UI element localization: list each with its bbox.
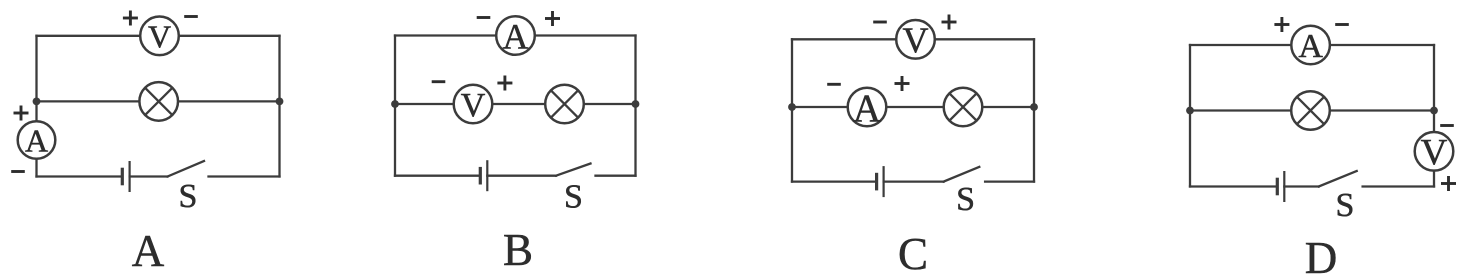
svg-text:A: A [1298, 28, 1323, 65]
circuit B: bottom wire middle segment [487, 175, 556, 177]
svg-text:V: V [461, 87, 486, 124]
lamp (circuit D) [1291, 91, 1330, 130]
circuit D: left vertical wire [1189, 45, 1191, 187]
circuit A: right vertical wire [278, 36, 280, 177]
circuit A: bottom wire middle segment [130, 175, 168, 177]
ammeter - terminal label (circuit A) [11, 170, 25, 173]
ammeter A (circuit B) [496, 16, 535, 56]
node: right junction (circuit B) [632, 100, 640, 108]
circuit B: left vertical wire [394, 36, 396, 176]
lamp (circuit A) [139, 82, 178, 121]
node: right junction (circuit C) [1030, 103, 1038, 111]
node: left junction (circuit D) [1186, 107, 1194, 115]
svg-text:A: A [25, 122, 48, 158]
switch S blade (circuit D) [1319, 171, 1357, 187]
circuit A: left vertical wire (top to node) [35, 36, 37, 102]
voltmeter V (circuit D) [1415, 132, 1454, 173]
node: left junction (circuit A) [33, 98, 41, 106]
circuit C: middle wire right segment [982, 106, 1034, 108]
node: left junction (circuit C) [788, 103, 796, 111]
ammeter + terminal label (circuit C) [895, 76, 910, 91]
voltmeter V (circuit B) [454, 85, 493, 124]
circuit C: bottom wire left segment [792, 180, 877, 182]
circuit D: middle wire left segment [1190, 109, 1291, 111]
voltmeter + terminal label (circuit D) [1441, 176, 1456, 191]
circuit D: bottom wire right segment [1363, 185, 1434, 187]
voltmeter + terminal label (circuit C) [942, 15, 957, 30]
ammeter + terminal label (circuit A) [14, 106, 29, 121]
circuit A: top wire right segment [179, 35, 280, 37]
circuit A: bottom wire right segment [209, 175, 280, 177]
circuit B: top wire left segment [395, 34, 496, 36]
circuit A: bottom wire left segment [37, 175, 123, 177]
voltmeter - terminal label (circuit D) [1440, 124, 1454, 127]
battery (circuit C) [877, 166, 884, 197]
circuit C: top wire right segment [935, 38, 1034, 40]
circuit C: right vertical wire [1033, 39, 1035, 181]
svg-text:S: S [564, 179, 583, 216]
switch S blade (circuit C) [944, 167, 980, 182]
node: right junction (circuit D) [1430, 107, 1438, 115]
circuit B: middle wire right segment [584, 103, 636, 105]
lamp (circuit C) [944, 88, 983, 127]
circuit D: right vertical wire (top to node) [1433, 45, 1435, 111]
circuit A: left vertical wire (node to ammeter) [35, 101, 37, 120]
voltmeter - terminal label (circuit B) [432, 80, 446, 83]
circuit B: bottom wire left segment [395, 175, 480, 177]
svg-text:A: A [853, 87, 881, 130]
svg-text:S: S [179, 178, 198, 215]
svg-text:S: S [1336, 187, 1355, 224]
circuit B: right vertical wire [634, 36, 636, 176]
svg-text:A: A [503, 16, 529, 56]
svg-text:A: A [132, 226, 165, 274]
circuit C: middle wire left segment [792, 106, 848, 108]
circuit C: bottom wire right segment [985, 180, 1034, 182]
node: right junction (circuit A) [276, 98, 284, 106]
ammeter + terminal label (circuit D) [1274, 17, 1289, 32]
circuit A: middle wire left segment [37, 100, 141, 102]
voltmeter - terminal label (circuit A) [184, 15, 198, 18]
ammeter - terminal label (circuit C) [827, 83, 841, 86]
voltmeter + terminal label (circuit A) [123, 11, 138, 26]
ammeter - terminal label (circuit D) [1335, 23, 1349, 26]
ammeter A (circuit A) [18, 121, 56, 159]
svg-text:V: V [148, 18, 171, 54]
circuit B: bottom wire right segment [596, 175, 636, 177]
ammeter - terminal label (circuit B) [477, 16, 491, 19]
voltmeter V (circuit A) [140, 17, 179, 56]
battery (circuit A) [122, 161, 129, 192]
node: left junction (circuit B) [391, 100, 399, 108]
svg-text:D: D [1305, 233, 1338, 274]
ammeter A (circuit C) [848, 87, 887, 130]
lamp (circuit B) [545, 85, 584, 124]
circuit A: top wire left segment [37, 35, 141, 37]
circuit C: middle wire center segment [886, 106, 943, 108]
circuit D: bottom wire middle segment [1284, 185, 1319, 187]
circuit C: left vertical wire [791, 39, 793, 181]
svg-text:V: V [1421, 132, 1448, 173]
svg-text:C: C [898, 229, 928, 274]
circuit B: top wire right segment [535, 34, 636, 36]
circuit D: top wire left segment [1190, 44, 1291, 46]
circuit B: middle wire center segment [492, 103, 545, 105]
svg-text:S: S [956, 181, 975, 218]
voltmeter + terminal label (circuit B) [497, 76, 512, 91]
battery (circuit B) [480, 160, 487, 191]
switch S blade (circuit B) [556, 164, 591, 176]
svg-text:B: B [503, 225, 533, 274]
circuit A: middle wire right segment [179, 100, 280, 102]
circuit A: left vertical wire (ammeter to bottom) [35, 159, 37, 176]
circuit D: bottom wire left segment [1190, 185, 1277, 187]
circuit D: top wire right segment [1330, 44, 1434, 46]
circuit D: right vertical wire (node to voltmeter) [1433, 111, 1435, 133]
circuit B: middle wire left segment [395, 103, 454, 105]
circuit C: bottom wire middle segment [884, 180, 944, 182]
voltmeter - terminal label (circuit C) [873, 21, 887, 24]
switch S blade (circuit A) [168, 161, 205, 177]
circuit C: top wire left segment [792, 38, 896, 40]
ammeter A (circuit D) [1291, 26, 1330, 65]
voltmeter V (circuit C) [896, 20, 935, 60]
circuit D: right vertical stub (voltmeter to bottom wire) [1433, 171, 1435, 187]
ammeter + terminal label (circuit B) [545, 11, 560, 26]
svg-text:V: V [903, 20, 929, 60]
battery (circuit D) [1277, 171, 1284, 202]
circuit D: middle wire right segment [1330, 109, 1434, 111]
